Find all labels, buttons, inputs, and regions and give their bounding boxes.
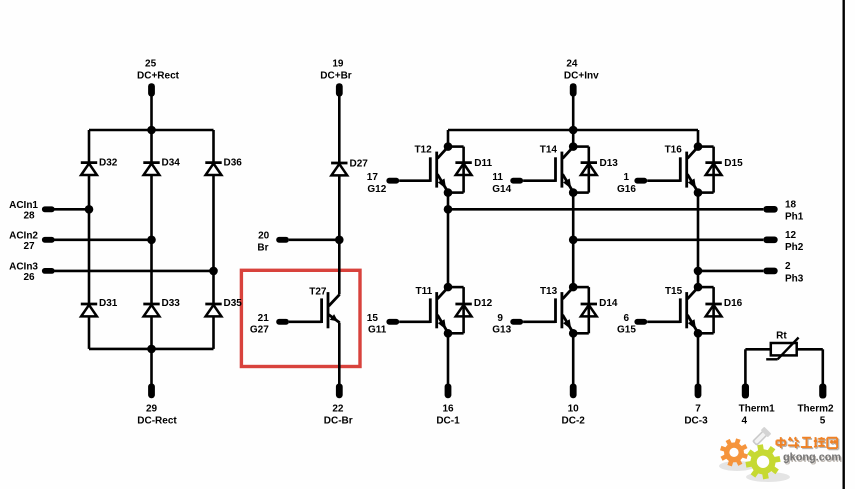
svg-text:T14: T14 — [540, 144, 558, 155]
svg-text:DC-Rect: DC-Rect — [137, 415, 177, 426]
svg-text:Therm2: Therm2 — [797, 403, 834, 414]
svg-text:Br: Br — [257, 243, 268, 254]
svg-text:DC-2: DC-2 — [562, 415, 586, 426]
svg-text:D11: D11 — [474, 158, 492, 169]
svg-text:ACIn1: ACIn1 — [9, 200, 38, 211]
svg-text:DC+Inv: DC+Inv — [564, 70, 599, 81]
svg-text:G12: G12 — [367, 184, 386, 195]
svg-text:7: 7 — [695, 403, 701, 414]
svg-text:D31: D31 — [99, 298, 118, 309]
svg-text:DC-3: DC-3 — [684, 415, 708, 426]
svg-text:28: 28 — [23, 211, 35, 222]
svg-text:D15: D15 — [724, 158, 743, 169]
svg-text:DC+Br: DC+Br — [320, 70, 352, 81]
svg-text:Ph1: Ph1 — [785, 212, 804, 223]
svg-text:DC+Rect: DC+Rect — [137, 70, 180, 81]
svg-text:Therm1: Therm1 — [739, 403, 776, 414]
svg-text:16: 16 — [442, 403, 454, 414]
svg-text:5: 5 — [820, 415, 826, 426]
svg-text:G16: G16 — [617, 184, 636, 195]
svg-text:19: 19 — [332, 59, 344, 70]
svg-text:27: 27 — [23, 241, 35, 252]
svg-text:25: 25 — [145, 59, 157, 70]
svg-text:DC-Br: DC-Br — [324, 415, 353, 426]
svg-text:ACIn3: ACIn3 — [9, 262, 38, 273]
svg-text:15: 15 — [367, 313, 379, 324]
svg-text:G27: G27 — [250, 325, 269, 336]
svg-text:T13: T13 — [540, 286, 558, 297]
svg-text:24: 24 — [566, 59, 578, 70]
svg-text:gkong.com: gkong.com — [783, 452, 841, 464]
svg-text:G14: G14 — [492, 184, 511, 195]
svg-text:D36: D36 — [224, 158, 243, 169]
svg-text:G11: G11 — [368, 325, 387, 336]
svg-text:29: 29 — [146, 403, 158, 414]
svg-text:21: 21 — [258, 313, 270, 324]
svg-text:2: 2 — [785, 261, 791, 272]
svg-text:D12: D12 — [474, 298, 493, 309]
svg-text:D33: D33 — [162, 298, 181, 309]
svg-text:11: 11 — [492, 172, 503, 183]
svg-text:18: 18 — [785, 199, 797, 210]
svg-text:Ph2: Ph2 — [785, 242, 804, 253]
svg-text:D27: D27 — [350, 159, 369, 170]
svg-text:D14: D14 — [599, 298, 618, 309]
svg-text:9: 9 — [497, 313, 503, 324]
svg-text:12: 12 — [785, 230, 797, 241]
svg-text:DC-1: DC-1 — [436, 415, 460, 426]
svg-text:D34: D34 — [162, 158, 181, 169]
svg-text:22: 22 — [332, 403, 344, 414]
svg-text:4: 4 — [742, 415, 748, 426]
svg-text:D32: D32 — [99, 158, 118, 169]
svg-text:D35: D35 — [224, 298, 243, 309]
svg-text:26: 26 — [23, 272, 35, 283]
svg-text:D16: D16 — [724, 298, 743, 309]
svg-text:10: 10 — [568, 403, 580, 414]
svg-text:20: 20 — [258, 231, 270, 242]
svg-text:Rt: Rt — [776, 330, 787, 341]
svg-text:G15: G15 — [617, 325, 636, 336]
svg-text:D13: D13 — [600, 158, 619, 169]
svg-text:T16: T16 — [665, 144, 683, 155]
svg-text:G13: G13 — [492, 325, 511, 336]
svg-text:17: 17 — [367, 172, 379, 183]
svg-text:Ph3: Ph3 — [785, 273, 804, 284]
svg-text:T27: T27 — [309, 286, 327, 297]
svg-text:1: 1 — [624, 172, 630, 183]
svg-text:T12: T12 — [414, 144, 432, 155]
svg-text:6: 6 — [624, 313, 630, 324]
svg-text:T11: T11 — [416, 286, 433, 297]
svg-text:ACIn2: ACIn2 — [9, 231, 38, 242]
svg-text:T15: T15 — [665, 286, 683, 297]
